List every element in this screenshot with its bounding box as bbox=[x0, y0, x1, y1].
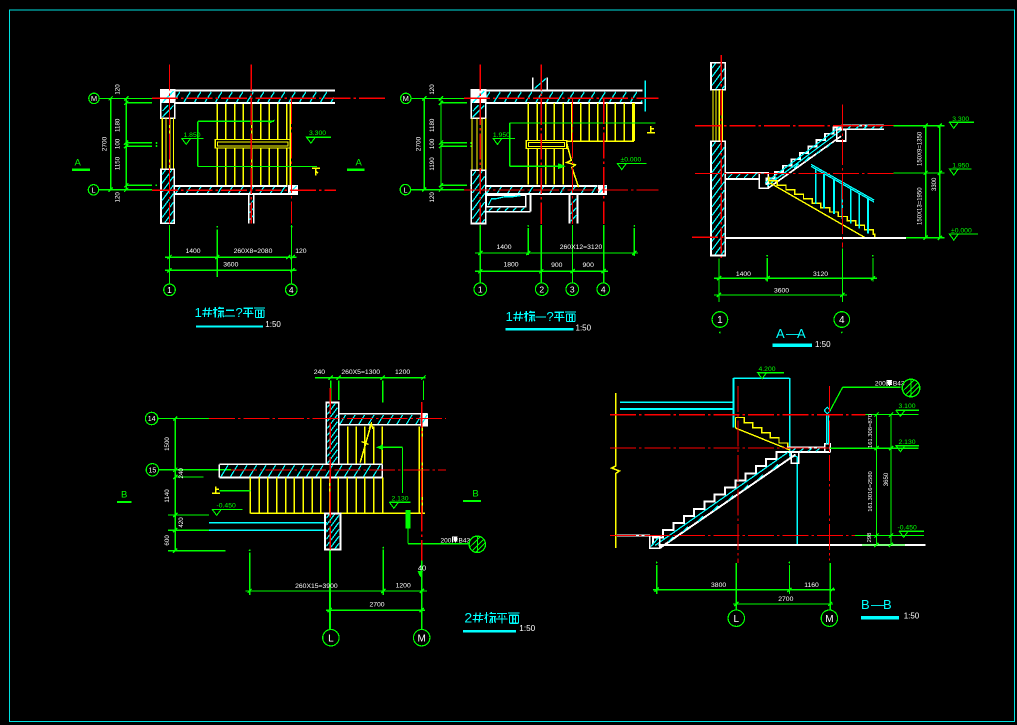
svg-text:3650: 3650 bbox=[884, 472, 890, 486]
svg-text:1: 1 bbox=[506, 309, 513, 324]
svg-text:3.100: 3.100 bbox=[899, 403, 916, 410]
svg-text:L: L bbox=[91, 186, 95, 195]
svg-text:L: L bbox=[403, 185, 407, 194]
svg-text:1140: 1140 bbox=[164, 489, 171, 503]
svg-text:1180: 1180 bbox=[115, 118, 122, 132]
svg-text:260X12=3120: 260X12=3120 bbox=[560, 244, 603, 251]
svg-text:120: 120 bbox=[429, 84, 436, 95]
svg-text:1:50: 1:50 bbox=[815, 340, 831, 349]
svg-text:150X13=1950: 150X13=1950 bbox=[918, 187, 924, 225]
svg-text:A: A bbox=[356, 157, 363, 168]
svg-text:260X5=1300: 260X5=1300 bbox=[341, 369, 380, 376]
svg-text:-0.450: -0.450 bbox=[898, 524, 917, 531]
svg-text:600: 600 bbox=[164, 535, 171, 546]
svg-text:1150: 1150 bbox=[115, 156, 122, 170]
svg-text:240: 240 bbox=[314, 369, 326, 376]
svg-text:A: A bbox=[797, 326, 806, 341]
svg-text:260X8=2080: 260X8=2080 bbox=[234, 248, 273, 255]
svg-text:B: B bbox=[472, 489, 478, 500]
svg-text:4: 4 bbox=[289, 285, 294, 295]
svg-text:B: B bbox=[883, 597, 892, 612]
svg-text:150X9=1350: 150X9=1350 bbox=[918, 131, 924, 166]
svg-text:1:50: 1:50 bbox=[519, 624, 535, 633]
svg-text:1:50: 1:50 bbox=[576, 324, 592, 333]
svg-text:L: L bbox=[734, 614, 740, 625]
svg-text:2700: 2700 bbox=[369, 602, 384, 609]
svg-text:3800: 3800 bbox=[711, 582, 726, 589]
svg-text:161.3016=2580: 161.3016=2580 bbox=[868, 471, 874, 511]
svg-text:4: 4 bbox=[839, 315, 845, 326]
svg-text:2700: 2700 bbox=[415, 136, 422, 151]
svg-text:200: 200 bbox=[875, 381, 886, 388]
svg-text:A: A bbox=[776, 326, 785, 341]
svg-text:3.300: 3.300 bbox=[309, 130, 326, 137]
svg-text:260X15=3900: 260X15=3900 bbox=[295, 583, 338, 590]
svg-text:100: 100 bbox=[115, 138, 122, 149]
svg-text:15: 15 bbox=[149, 467, 157, 474]
svg-text:M: M bbox=[418, 633, 426, 644]
svg-text:1400: 1400 bbox=[736, 271, 751, 278]
svg-text:3: 3 bbox=[570, 284, 575, 294]
svg-text:14: 14 bbox=[148, 416, 156, 423]
svg-text:200: 200 bbox=[441, 537, 452, 544]
svg-text:298: 298 bbox=[867, 533, 873, 543]
svg-text:-0.450: -0.450 bbox=[217, 503, 236, 510]
svg-text:?: ? bbox=[235, 305, 242, 320]
svg-text:M: M bbox=[91, 94, 97, 103]
svg-text:±0.000: ±0.000 bbox=[621, 157, 642, 164]
svg-text:2.130: 2.130 bbox=[392, 496, 409, 503]
svg-text:?: ? bbox=[546, 309, 553, 324]
svg-text:2: 2 bbox=[539, 284, 544, 294]
svg-text:A: A bbox=[75, 157, 82, 168]
svg-text:1200: 1200 bbox=[396, 582, 411, 589]
svg-text:B: B bbox=[121, 490, 127, 501]
svg-text:1180: 1180 bbox=[429, 118, 436, 132]
svg-text:1400: 1400 bbox=[185, 248, 200, 255]
svg-text:1:50: 1:50 bbox=[265, 320, 281, 329]
svg-text:B: B bbox=[861, 597, 870, 612]
svg-text:1: 1 bbox=[195, 305, 202, 320]
svg-text:3600: 3600 bbox=[774, 288, 789, 295]
svg-text:100: 100 bbox=[429, 138, 436, 149]
svg-text:1:50: 1:50 bbox=[904, 612, 920, 621]
svg-text:900: 900 bbox=[583, 262, 595, 269]
svg-text:1: 1 bbox=[717, 315, 723, 326]
svg-text:4: 4 bbox=[601, 284, 606, 294]
svg-text:1: 1 bbox=[478, 284, 483, 294]
svg-text:120: 120 bbox=[295, 248, 307, 255]
svg-text:M: M bbox=[403, 94, 409, 103]
svg-text:M: M bbox=[825, 614, 833, 625]
svg-text:161.308=870: 161.308=870 bbox=[868, 414, 874, 448]
svg-text:2: 2 bbox=[464, 610, 472, 626]
svg-text:3120: 3120 bbox=[813, 271, 828, 278]
svg-text:3300: 3300 bbox=[932, 177, 938, 191]
svg-text:2.130: 2.130 bbox=[899, 439, 916, 446]
svg-text:2700: 2700 bbox=[778, 596, 793, 603]
svg-text:1400: 1400 bbox=[496, 244, 511, 251]
svg-text:120: 120 bbox=[115, 192, 122, 203]
svg-text:120: 120 bbox=[429, 192, 436, 203]
svg-text:3600: 3600 bbox=[223, 261, 238, 268]
svg-text:900: 900 bbox=[551, 262, 563, 269]
svg-text:120: 120 bbox=[115, 84, 122, 95]
svg-text:1160: 1160 bbox=[804, 582, 819, 589]
svg-text:1190: 1190 bbox=[429, 157, 436, 171]
svg-text:1.850: 1.850 bbox=[184, 132, 201, 139]
svg-text:1200: 1200 bbox=[395, 369, 410, 376]
svg-text:420: 420 bbox=[178, 517, 185, 528]
svg-text:1800: 1800 bbox=[503, 261, 518, 268]
svg-text:1: 1 bbox=[167, 285, 172, 295]
svg-text:2700: 2700 bbox=[102, 136, 109, 151]
svg-text:4.200: 4.200 bbox=[759, 366, 776, 373]
svg-text:1500: 1500 bbox=[164, 437, 171, 451]
svg-text:240: 240 bbox=[178, 468, 185, 479]
svg-text:L: L bbox=[328, 633, 334, 644]
